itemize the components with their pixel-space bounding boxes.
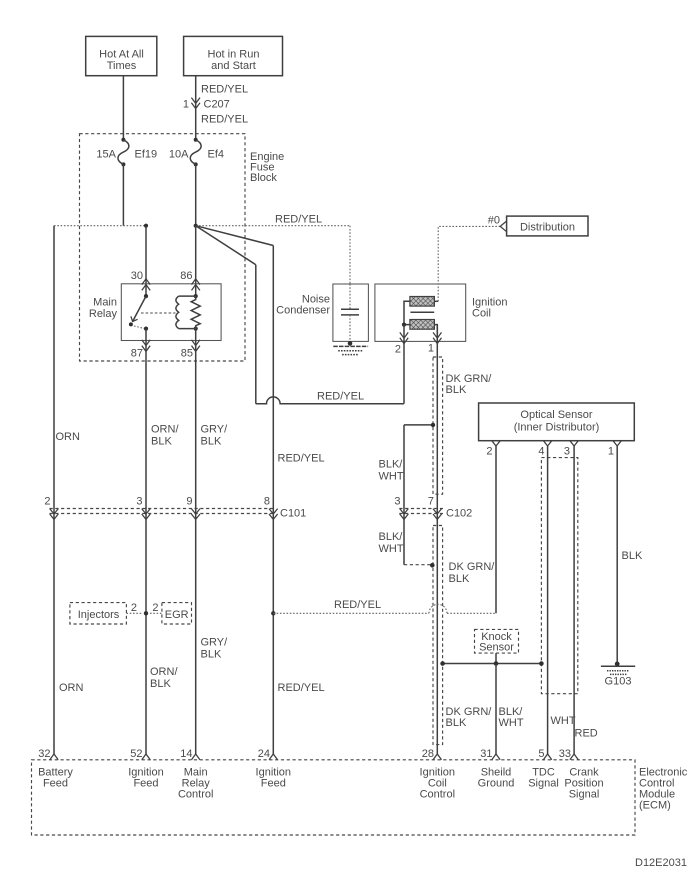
- Noise Condenser box: [333, 284, 369, 341]
- wire RED/YEL ignition feed: [272, 246, 274, 755]
- ECM pin 52: [128, 748, 163, 790]
- ECM pin 28: [420, 748, 455, 801]
- label DK GRN/BLK below C102: [449, 561, 496, 585]
- wire optical pin2 feed: [495, 446, 497, 613]
- svg-text:RED/YEL: RED/YEL: [278, 453, 325, 465]
- label GRY/BLK: [201, 424, 229, 448]
- coil right link to pin1: [434, 325, 437, 342]
- label BLK/WHT below C102: [379, 531, 404, 555]
- pin 87 chevrons: [131, 340, 150, 360]
- svg-text:Coil: Coil: [472, 308, 491, 320]
- svg-text:Control: Control: [420, 789, 455, 801]
- label Engine Fuse Block: [250, 151, 284, 184]
- wire fuse Ef19 output: [122, 164, 124, 225]
- relay actuation dashed link: [141, 312, 176, 314]
- label DK GRN/BLK bottom: [446, 706, 493, 729]
- fuse Ef19: [96, 138, 157, 167]
- label Main Relay: [89, 297, 118, 321]
- wire relay pin86 feed: [195, 226, 197, 296]
- wire shield tap BLK/WHT: [404, 423, 435, 427]
- svg-text:RED/YEL: RED/YEL: [201, 84, 248, 96]
- wire coil feed vertical: [255, 265, 257, 404]
- relay switch arm: [129, 294, 148, 331]
- svg-text:30: 30: [131, 270, 143, 282]
- svg-text:(ECM): (ECM): [639, 800, 671, 812]
- box Hot in Run and Start: [184, 36, 283, 75]
- svg-text:1: 1: [428, 343, 434, 355]
- svg-text:2: 2: [44, 496, 50, 508]
- svg-text:3: 3: [136, 496, 142, 508]
- wire shield ground bus: [440, 661, 543, 666]
- relay coil: [176, 294, 198, 331]
- C101 pin 9 chevrons: [186, 496, 200, 520]
- svg-text:Feed: Feed: [261, 778, 286, 790]
- wire relay pin87 ORN/BLK: [145, 329, 147, 754]
- svg-text:28: 28: [422, 748, 434, 760]
- connector C207: [183, 98, 230, 111]
- svg-text:Ef19: Ef19: [135, 149, 158, 161]
- wire shield tap 2 dashed: [404, 563, 435, 568]
- ECM pin 24: [256, 748, 291, 790]
- svg-text:BLK: BLK: [150, 678, 171, 690]
- wire noise condenser feed: [349, 226, 351, 284]
- relay resistor: [191, 296, 200, 329]
- svg-text:2: 2: [395, 344, 401, 356]
- C101 pin 2 chevrons: [44, 496, 58, 520]
- wire optical pin4 WHT: [547, 446, 549, 754]
- svg-text:BLK: BLK: [201, 649, 222, 661]
- svg-text:4: 4: [538, 446, 544, 458]
- ground below noise condenser: [333, 346, 368, 354]
- connector C101 dashed lines: [50, 508, 307, 520]
- ECM dashed box: [32, 760, 636, 835]
- label BLK/WHT bottom: [499, 706, 524, 729]
- svg-text:D12E2031: D12E2031: [635, 857, 687, 869]
- svg-text:BLK: BLK: [622, 550, 643, 562]
- svg-text:Hot in Run: Hot in Run: [208, 49, 260, 61]
- C102 pin 7 chevrons: [428, 496, 442, 520]
- label ORN/BLK lower: [150, 666, 178, 690]
- Optical Sensor box: [479, 403, 635, 441]
- svg-text:Control: Control: [178, 789, 213, 801]
- wire BLK/WHT to ECM 31: [495, 664, 497, 755]
- svg-text:RED/YEL: RED/YEL: [201, 114, 248, 126]
- label Noise Condenser: [276, 294, 330, 317]
- wire coil pin2 drop: [403, 325, 405, 404]
- optical pin 4 chevron: [538, 441, 551, 458]
- node fuse19 bus junction: [144, 224, 148, 228]
- wire knock sensor drop: [495, 653, 497, 663]
- label BLK/WHT: [379, 459, 404, 483]
- svg-text:Hot At All: Hot At All: [99, 49, 144, 61]
- svg-text:WHT: WHT: [499, 717, 524, 729]
- svg-text:WHT: WHT: [379, 471, 404, 483]
- wire optical pin3 RED: [573, 446, 575, 754]
- svg-text:ORN/: ORN/: [150, 666, 178, 678]
- relay MainRelay box: [121, 284, 221, 341]
- svg-text:Sensor: Sensor: [479, 642, 514, 654]
- pin 30 chevrons: [131, 270, 150, 290]
- shielded cable 2 dashed: [433, 526, 443, 745]
- svg-text:Main: Main: [93, 297, 117, 309]
- svg-text:Distribution: Distribution: [520, 222, 575, 234]
- Injectors dashed box: [70, 603, 127, 624]
- svg-text:DK GRN/: DK GRN/: [449, 561, 496, 573]
- label ORN/BLK: [151, 424, 179, 448]
- ECM pin 5: [528, 748, 559, 790]
- svg-text:86: 86: [180, 270, 192, 282]
- ECM pin 32: [38, 748, 73, 790]
- wire relay pin85 GRY/BLK: [195, 329, 197, 754]
- wire fuse Ef4 output: [195, 164, 197, 225]
- label GRY/BLK lower: [201, 637, 229, 661]
- C102 pin 3 chevrons: [394, 496, 408, 520]
- svg-text:2: 2: [486, 446, 492, 458]
- svg-text:3: 3: [564, 446, 570, 458]
- svg-text:2: 2: [152, 602, 158, 614]
- svg-text:3: 3: [394, 496, 400, 508]
- coil core lines: [410, 311, 434, 313]
- ground G103: [601, 662, 635, 688]
- coil pin 2 chevrons: [395, 332, 408, 355]
- Distribution box: [500, 216, 588, 236]
- svg-text:Feed: Feed: [43, 778, 68, 790]
- svg-text:(Inner Distributor): (Inner Distributor): [514, 422, 600, 434]
- svg-text:#0: #0: [488, 215, 500, 227]
- capacitor C inside condenser: [341, 284, 359, 346]
- svg-text:33: 33: [559, 748, 571, 760]
- Ignition Coil box: [375, 284, 466, 341]
- svg-text:24: 24: [258, 748, 270, 760]
- wire optical pin1 BLK: [616, 446, 618, 666]
- svg-text:1: 1: [608, 446, 614, 458]
- wire bus right segment RED/YEL: [196, 225, 350, 227]
- ECM pin 31: [478, 748, 515, 790]
- svg-text:9: 9: [186, 496, 192, 508]
- connector C102 dashed lines: [399, 508, 472, 520]
- wire coil pin1 DK GRN/BLK: [436, 326, 438, 754]
- svg-text:C102: C102: [446, 508, 472, 520]
- wire relay pin30 feed: [145, 226, 147, 296]
- svg-text:ORN: ORN: [56, 431, 81, 443]
- coil primary winding: [410, 297, 435, 307]
- C101 pin 3 chevrons: [136, 496, 150, 520]
- svg-text:Signal: Signal: [528, 778, 559, 790]
- svg-text:32: 32: [38, 748, 50, 760]
- Knock Sensor dashed box: [475, 629, 519, 653]
- wire hot-at-all-times drop: [122, 76, 124, 140]
- svg-text:14: 14: [180, 748, 192, 760]
- svg-text:Ground: Ground: [478, 778, 515, 790]
- svg-text:15A: 15A: [96, 149, 116, 161]
- wire diagonal to coil feed: [196, 226, 256, 265]
- pin 85 chevrons: [181, 340, 200, 360]
- Engine Fuse Block dashed box: [80, 134, 246, 361]
- svg-text:BLK: BLK: [201, 436, 222, 448]
- wire hot-in-run drop: [195, 76, 197, 140]
- svg-text:Injectors: Injectors: [78, 609, 120, 621]
- svg-text:31: 31: [480, 748, 492, 760]
- shielded cable optical dashed: [541, 458, 577, 694]
- svg-text:RED/YEL: RED/YEL: [317, 391, 364, 403]
- svg-text:EGR: EGR: [165, 609, 189, 621]
- svg-text:G103: G103: [605, 676, 632, 688]
- svg-text:Feed: Feed: [133, 778, 158, 790]
- svg-text:Optical Sensor: Optical Sensor: [520, 409, 592, 421]
- injectors dotted link: [126, 602, 148, 616]
- svg-text:Signal: Signal: [569, 789, 600, 801]
- label Ignition Coil: [472, 297, 507, 320]
- ECM pin 33: [559, 748, 604, 801]
- pin 86 chevrons: [180, 270, 200, 290]
- svg-text:BLK: BLK: [446, 384, 467, 396]
- svg-text:87: 87: [131, 348, 143, 360]
- svg-text:52: 52: [130, 748, 142, 760]
- svg-text:ORN/: ORN/: [151, 424, 179, 436]
- svg-text:2: 2: [131, 602, 137, 614]
- svg-text:GRY/: GRY/: [201, 424, 229, 436]
- shielded cable 1 dashed: [433, 357, 443, 494]
- svg-text:ORN: ORN: [59, 682, 84, 694]
- optical pin 3 chevron: [564, 441, 578, 458]
- box Hot At All Times: [86, 36, 157, 75]
- svg-text:and Start: and Start: [211, 60, 256, 72]
- svg-text:RED/YEL: RED/YEL: [278, 682, 325, 694]
- svg-text:RED/YEL: RED/YEL: [334, 599, 381, 611]
- node fuse4 bus junction: [194, 224, 198, 228]
- svg-text:85: 85: [181, 348, 193, 360]
- svg-text:BLK: BLK: [446, 717, 467, 729]
- svg-text:Condenser: Condenser: [276, 305, 330, 317]
- EGR dashed box: [150, 602, 192, 624]
- coil left link and junction: [402, 301, 410, 326]
- svg-text:C207: C207: [204, 99, 230, 111]
- svg-text:10A: 10A: [169, 149, 189, 161]
- wire distribution feed #0: [438, 226, 500, 301]
- wire bus left segment: [54, 225, 146, 227]
- wire BLK/WHT vertical: [403, 425, 405, 565]
- ECM pin 14: [178, 748, 213, 801]
- svg-text:7: 7: [428, 496, 434, 508]
- optical pin 1 chevron: [608, 441, 622, 458]
- svg-text:BLK/: BLK/: [379, 459, 404, 471]
- wire coil feed horizontal with hop: [256, 397, 404, 404]
- wire coil top-right link: [434, 300, 438, 302]
- injectors row: RED/YEL branch: [271, 604, 496, 615]
- C101 pin 8 chevrons: [264, 496, 278, 520]
- svg-text:Times: Times: [107, 60, 137, 72]
- svg-text:Relay: Relay: [89, 308, 118, 320]
- svg-text:5: 5: [538, 748, 544, 760]
- coil secondary winding: [410, 320, 435, 330]
- svg-text:BLK/: BLK/: [379, 531, 404, 543]
- svg-text:WHT: WHT: [379, 543, 404, 555]
- label DK GRN/BLK: [446, 373, 493, 396]
- wire ORN battery feed: [53, 226, 55, 754]
- svg-text:GRY/: GRY/: [201, 637, 229, 649]
- svg-text:BLK: BLK: [449, 573, 470, 585]
- fuse Ef4: [169, 138, 224, 167]
- svg-text:RED/YEL: RED/YEL: [275, 214, 322, 226]
- svg-text:Block: Block: [250, 172, 277, 184]
- coil pin 1 chevrons: [428, 332, 442, 354]
- wire diagonal to RED/YEL feed: [196, 226, 274, 246]
- optical pin 2 chevron: [486, 441, 500, 458]
- svg-text:C101: C101: [280, 508, 306, 520]
- svg-text:8: 8: [264, 496, 270, 508]
- svg-text:Ef4: Ef4: [208, 149, 225, 161]
- svg-text:RED: RED: [575, 728, 598, 740]
- svg-text:1: 1: [183, 99, 189, 111]
- label Electronic Control Module (ECM): [639, 767, 688, 812]
- svg-text:BLK: BLK: [151, 436, 172, 448]
- svg-text:WHT: WHT: [551, 715, 576, 727]
